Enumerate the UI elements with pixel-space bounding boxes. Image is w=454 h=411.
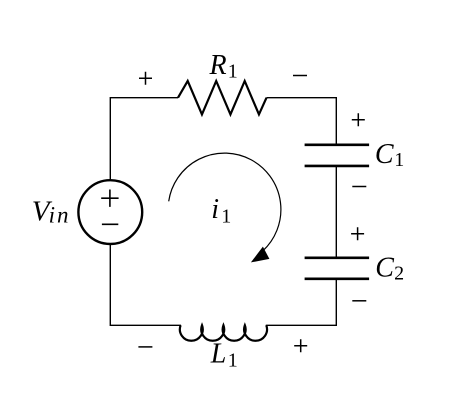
svg-text:in: in: [49, 202, 71, 227]
current loop i1 arc: [169, 153, 281, 251]
svg-text:1: 1: [221, 205, 231, 227]
resistor R1: [178, 81, 267, 114]
wire: right rail between C1 and C2: [335, 165, 337, 258]
svg-text:1: 1: [228, 61, 238, 83]
svg-text:L: L: [210, 338, 227, 369]
svg-text:1: 1: [394, 149, 404, 171]
polarity + left of R1: [139, 72, 152, 85]
capacitor C1 bottom plate: [305, 165, 370, 168]
polarity + above C2: [351, 227, 364, 240]
wire: right rail below C2 + bottom rail to L1: [266, 278, 337, 325]
polarity + right of L1: [294, 339, 307, 352]
wire: bottom rail left of L1 + left rail up to source: [110, 244, 181, 326]
polarity - left of L1: [138, 346, 152, 348]
svg-text:2: 2: [394, 263, 404, 285]
voltage source Vin circle: [78, 180, 142, 244]
svg-text:C: C: [375, 139, 394, 170]
capacitor C2 bottom plate: [305, 277, 370, 280]
svg-text:i: i: [211, 194, 219, 225]
voltage source Vin minus sign: [102, 223, 118, 225]
svg-text:C: C: [375, 253, 394, 284]
capacitor C2 top plate: [305, 256, 370, 259]
polarity - right of R1: [293, 75, 307, 77]
wire: top rail right of R1 + right rail down to C1: [267, 98, 337, 146]
wire: top-left corner (left rail to top rail): [110, 98, 178, 181]
polarity - below C2: [352, 300, 366, 302]
svg-text:R: R: [209, 50, 227, 81]
svg-text:1: 1: [228, 350, 238, 372]
polarity - below C1: [352, 186, 366, 188]
capacitor C1 top plate: [305, 144, 370, 147]
inductor L1: [180, 325, 267, 340]
polarity + above C1: [352, 113, 365, 126]
current loop i1 arrowhead: [251, 247, 270, 263]
voltage source Vin plus sign: [101, 190, 118, 207]
